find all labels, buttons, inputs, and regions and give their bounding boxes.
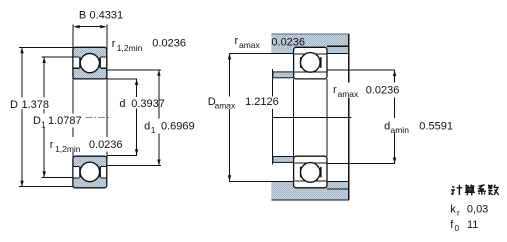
svg-text:0.5591: 0.5591 xyxy=(419,121,453,133)
right view bearing side face lines xyxy=(293,79,295,157)
housing bottom slab xyxy=(229,181,349,200)
系 xyxy=(478,185,486,195)
da extension lines xyxy=(327,69,395,71)
left top section xyxy=(73,47,107,79)
svg-text:d: d xyxy=(144,121,150,133)
svg-text:d: d xyxy=(119,98,125,110)
D1 label xyxy=(32,114,84,128)
axis line right view xyxy=(272,117,351,119)
ramax mid label xyxy=(332,83,403,98)
svg-text:0.6969: 0.6969 xyxy=(161,121,195,133)
svg-text:1: 1 xyxy=(151,125,156,135)
svg-text:0.3937: 0.3937 xyxy=(131,98,165,110)
数 xyxy=(488,185,493,195)
Damax label xyxy=(206,97,281,110)
svg-text:D: D xyxy=(33,115,41,127)
B dimension xyxy=(73,25,106,28)
svg-text:k: k xyxy=(450,203,456,215)
svg-text:r: r xyxy=(50,139,54,151)
shaft end line xyxy=(272,69,274,164)
计算系数 drawn as paths (CJK not in Liberation) xyxy=(451,185,499,196)
r12min bottom label xyxy=(48,137,124,152)
svg-text:1: 1 xyxy=(41,119,46,129)
left view side face lines (also B extension lines) xyxy=(72,24,74,158)
svg-text:0: 0 xyxy=(455,223,460,233)
shaft shoulder top bar xyxy=(273,72,294,78)
damin label xyxy=(383,118,450,133)
left view centerline (dash-dot) xyxy=(86,116,112,118)
right top section (white) xyxy=(294,47,327,79)
d1 label xyxy=(143,119,196,134)
housing shoulder face vertical line xyxy=(348,34,350,200)
housing top slab xyxy=(229,34,349,54)
svg-text:0.4331: 0.4331 xyxy=(90,10,124,22)
d dimension line xyxy=(136,79,138,155)
damin dimension line xyxy=(394,70,396,163)
svg-text:amax: amax xyxy=(338,89,360,99)
right bottom section (white) xyxy=(294,156,327,188)
svg-text:1,2min: 1,2min xyxy=(117,43,143,53)
svg-text:D: D xyxy=(10,99,18,111)
svg-text:0.0236: 0.0236 xyxy=(152,38,186,50)
D1 dimension line xyxy=(43,57,45,177)
svg-text:0.0236: 0.0236 xyxy=(89,139,123,151)
svg-text:B: B xyxy=(79,10,86,22)
svg-text:0.0236: 0.0236 xyxy=(271,37,305,49)
d label xyxy=(118,97,158,109)
svg-text:amin: amin xyxy=(391,125,410,135)
算 xyxy=(466,185,475,187)
svg-text:0,03: 0,03 xyxy=(467,203,488,215)
svg-text:r: r xyxy=(112,38,116,50)
left bottom section xyxy=(73,156,107,188)
计 xyxy=(451,187,455,195)
shaft shoulder bottom bar xyxy=(273,157,294,163)
svg-text:1.0787: 1.0787 xyxy=(48,115,82,127)
svg-text:amax: amax xyxy=(239,40,261,50)
svg-text:d: d xyxy=(384,121,390,133)
svg-text:r: r xyxy=(235,35,239,47)
svg-text:amax: amax xyxy=(215,100,237,110)
Damax dimension line xyxy=(229,54,231,182)
svg-text:1,2min: 1,2min xyxy=(55,144,81,154)
svg-text:r: r xyxy=(457,207,460,217)
svg-text:1.2126: 1.2126 xyxy=(245,96,279,108)
D dimension line xyxy=(21,47,23,186)
svg-text:11: 11 xyxy=(467,219,478,231)
svg-text:0.0236: 0.0236 xyxy=(366,85,400,97)
svg-text:r: r xyxy=(333,84,337,96)
svg-text:1.378: 1.378 xyxy=(22,99,50,111)
d1 dimension line xyxy=(158,70,160,166)
D label xyxy=(9,98,51,110)
